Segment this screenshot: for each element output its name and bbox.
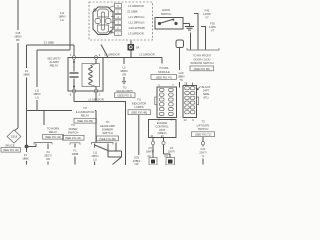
svg-text:L11: L11 xyxy=(60,11,65,15)
label L11 18PK/LG mid xyxy=(33,89,41,100)
svg-text:18BK: 18BK xyxy=(23,73,30,77)
svg-text:(SEE FIG 47): (SEE FIG 47) xyxy=(156,75,172,79)
wire G03 xyxy=(133,115,141,166)
svg-text:HOOD: HOOD xyxy=(162,8,170,12)
svg-text:L11: L11 xyxy=(35,89,40,93)
svg-text:OR: OR xyxy=(46,157,50,161)
label TO HEADLAMPS (SEE FIG 3) xyxy=(115,85,136,97)
wire L11 horizontal xyxy=(37,49,70,51)
svg-text:L11 18PK/LG: L11 18PK/LG xyxy=(129,15,145,19)
svg-text:L3 18RD/OR: L3 18RD/OR xyxy=(128,32,143,36)
svg-text:18PK/: 18PK/ xyxy=(58,15,66,19)
label TO ILLUMINATION RELAY (SEE FIG 89) xyxy=(72,105,97,125)
svg-text:14PT: 14PT xyxy=(203,89,210,93)
svg-text:F35: F35 xyxy=(210,22,215,26)
relay contact xyxy=(70,60,79,90)
svg-text:VT: VT xyxy=(211,29,215,33)
wire F35 xyxy=(201,22,216,50)
svg-text:L11 18PK/LG: L11 18PK/LG xyxy=(129,21,145,25)
svg-text:X4: X4 xyxy=(46,150,50,154)
wire horizontal to dimmer switch xyxy=(27,110,97,112)
connector face xyxy=(93,7,113,35)
svg-text:CONTROL: CONTROL xyxy=(155,124,169,128)
horn bracket xyxy=(34,143,52,145)
svg-text:20: 20 xyxy=(161,134,164,138)
svg-text:G19 20TN/PK: G19 20TN/PK xyxy=(129,26,146,30)
wire F1 xyxy=(70,143,80,165)
svg-text:ENGINE: ENGINE xyxy=(157,121,168,125)
wire relay pin8 down xyxy=(73,93,75,102)
svg-text:18VT/: 18VT/ xyxy=(168,149,175,153)
svg-text:G71: G71 xyxy=(200,147,206,151)
svg-text:HEADLAMP: HEADLAMP xyxy=(100,124,115,128)
label TO HEADLAMP DIMMER SWITCH (SEE FIG 4B) xyxy=(97,119,120,142)
label BLACK 14PT SIDE xyxy=(196,85,210,100)
splice S218 diamond xyxy=(7,130,21,143)
svg-text:SWITCH: SWITCH xyxy=(68,131,79,135)
connector C3 xyxy=(164,154,174,165)
svg-text:L11: L11 xyxy=(93,151,98,155)
svg-text:SECURITY: SECURITY xyxy=(47,57,61,61)
wire L3 to headlamps xyxy=(120,58,128,85)
svg-text:YL: YL xyxy=(201,154,205,158)
svg-text:(SEE FIG 48): (SEE FIG 48) xyxy=(131,111,147,115)
svg-text:L3 18RD/OR: L3 18RD/OR xyxy=(104,53,119,57)
wire Z1 horizontal to relay xyxy=(27,44,75,46)
svg-text:TO: TO xyxy=(71,123,75,127)
wire from ground area xyxy=(190,33,192,50)
wire L11 vertical xyxy=(36,50,38,87)
svg-text:14PK/: 14PK/ xyxy=(209,25,217,29)
svg-text:TO DRL: TO DRL xyxy=(159,66,169,70)
label TO RH FRONT DOOR LOCK/WINDOW SWITCH (SEE FIG 88) xyxy=(190,54,214,71)
svg-text:VT: VT xyxy=(205,16,209,20)
wire relay pin2 down xyxy=(95,93,97,102)
svg-text:(SEE FIG 44): (SEE FIG 44) xyxy=(45,135,61,139)
right connector block pins xyxy=(183,82,199,123)
svg-text:LG: LG xyxy=(93,158,97,162)
svg-text:(SEE FIG 42): (SEE FIG 42) xyxy=(65,136,81,140)
dimmer bracket xyxy=(92,143,114,145)
svg-text:MODULE: MODULE xyxy=(158,70,170,74)
wire L11 from top xyxy=(69,0,71,50)
svg-text:SWITCH: SWITCH xyxy=(102,131,113,135)
wire to ground xyxy=(183,24,190,27)
svg-text:Z1: Z1 xyxy=(24,153,28,157)
svg-text:SWITCH: SWITCH xyxy=(161,12,172,16)
svg-text:L3 18RD/OR: L3 18RD/OR xyxy=(128,4,143,8)
pin box 1 xyxy=(108,4,144,9)
svg-text:TO RH FRONT: TO RH FRONT xyxy=(193,54,212,58)
svg-text:G19: G19 xyxy=(178,71,184,75)
svg-text:LG: LG xyxy=(35,96,39,100)
wire L11 under dimmer xyxy=(91,151,99,166)
hood switch xyxy=(155,8,183,29)
svg-text:L3 18RD/OR: L3 18RD/OR xyxy=(139,53,154,57)
wire horn to splice dot xyxy=(27,144,37,147)
label TO INDICATOR LAMPS (SEE FIG 48) xyxy=(128,98,151,115)
left connector block pins xyxy=(155,83,177,122)
label TO WIPER SWITCH (SEE FIG 42) xyxy=(63,123,85,140)
junction dot xyxy=(25,145,29,149)
pin box 6 xyxy=(108,31,144,36)
wire X4 xyxy=(44,144,52,165)
svg-text:BLACK: BLACK xyxy=(202,85,211,89)
svg-text:F42: F42 xyxy=(205,9,210,13)
svg-text:OR: OR xyxy=(122,73,126,77)
security alarm relay K1 xyxy=(68,53,103,97)
svg-text:(SEE FIG 3): (SEE FIG 3) xyxy=(117,94,132,98)
pin box 3 xyxy=(111,15,144,20)
svg-text:LIFTGATE: LIFTGATE xyxy=(197,123,210,127)
svg-text:18PK/: 18PK/ xyxy=(91,154,99,158)
svg-text:WIPER: WIPER xyxy=(69,127,78,131)
svg-text:L3: L3 xyxy=(123,66,126,70)
svg-text:SWITCH: SWITCH xyxy=(198,127,209,131)
svg-text:Z1 18BK: Z1 18BK xyxy=(44,41,55,45)
svg-text:S218: S218 xyxy=(11,135,18,139)
pin box 4 xyxy=(111,20,144,25)
svg-text:SPLICE: SPLICE xyxy=(5,144,15,148)
wire F42 xyxy=(194,9,211,50)
svg-text:Z1 18BK: Z1 18BK xyxy=(127,10,138,14)
svg-text:18DB: 18DB xyxy=(72,152,79,156)
svg-text:(SEE FIG 4B): (SEE FIG 4B) xyxy=(99,137,116,141)
svg-text:INDICATOR: INDICATOR xyxy=(132,101,147,105)
wire L3 bottom horizontal xyxy=(74,101,126,103)
bracket RH front xyxy=(187,48,219,50)
svg-text:OR: OR xyxy=(134,162,138,165)
wire down to horn label xyxy=(43,111,45,126)
svg-text:18DA/: 18DA/ xyxy=(14,35,22,39)
splice S4 xyxy=(128,41,140,58)
svg-text:SIDE: SIDE xyxy=(203,92,209,96)
svg-text:TO: TO xyxy=(106,120,110,124)
svg-text:(SEE FIG 71): (SEE FIG 71) xyxy=(195,133,211,137)
svg-text:LG: LG xyxy=(60,18,64,22)
connector symbol C210 xyxy=(176,40,184,48)
svg-text:HEADLAMPS: HEADLAMPS xyxy=(116,89,133,93)
svg-text:18GY/: 18GY/ xyxy=(44,154,52,158)
switch wires lower staircase xyxy=(108,143,122,165)
svg-text:TO: TO xyxy=(137,98,141,102)
wire down to dimmer area xyxy=(95,111,97,143)
wire F18 lower vertical xyxy=(17,43,19,128)
svg-text:DOOR LOCK/: DOOR LOCK/ xyxy=(194,57,211,61)
svg-text:13: 13 xyxy=(184,118,187,122)
wire C6 xyxy=(146,145,154,158)
svg-text:TN: TN xyxy=(179,78,183,82)
wire C4 xyxy=(164,145,176,158)
label Z1 18BK bottom xyxy=(22,147,29,165)
svg-text:WINDOW SWITCH: WINDOW SWITCH xyxy=(190,61,213,65)
wire Z1 left vertical xyxy=(26,45,28,68)
ground xyxy=(185,27,194,31)
svg-text:S4: S4 xyxy=(136,46,140,50)
label Z1 18BK mid xyxy=(23,69,30,77)
svg-text:18PK/: 18PK/ xyxy=(33,92,41,96)
svg-text:18WT*: 18WT* xyxy=(146,149,154,153)
ECU pins 40 20 xyxy=(150,134,165,145)
svg-text:F18: F18 xyxy=(16,31,21,35)
svg-text:RELAY: RELAY xyxy=(49,130,58,134)
dashed box instrument cluster connector xyxy=(89,2,153,40)
svg-text:LAMPS: LAMPS xyxy=(134,105,143,109)
svg-text:(SEE FIG 89): (SEE FIG 89) xyxy=(77,119,93,123)
svg-text:18BK/: 18BK/ xyxy=(177,75,185,79)
svg-text:DIMMER: DIMMER xyxy=(102,128,113,132)
wire G71 xyxy=(199,137,206,165)
svg-text:BK: BK xyxy=(16,38,20,42)
label SPLICE (SEE FIG 30) xyxy=(1,144,21,153)
svg-text:18BK: 18BK xyxy=(22,157,29,161)
connector C2 xyxy=(147,154,157,165)
pin box 2 xyxy=(110,9,138,14)
svg-text:TO: TO xyxy=(123,85,127,89)
svg-text:ILLUMINATION: ILLUMINATION xyxy=(76,110,95,114)
label L11 18PK/LG left xyxy=(58,11,66,22)
svg-text:18RD/: 18RD/ xyxy=(120,69,128,73)
svg-text:40: 40 xyxy=(150,134,153,138)
svg-text:UNIT: UNIT xyxy=(159,128,166,132)
svg-text:Z1: Z1 xyxy=(25,69,29,73)
wire relay pin1 drop xyxy=(73,45,75,56)
label SECURITY ALARM RELAY xyxy=(47,57,61,68)
wire to DRL xyxy=(161,58,163,64)
wire F18 top vertical xyxy=(17,0,19,30)
svg-text:TO HORN: TO HORN xyxy=(47,127,59,131)
dimmer switch blade xyxy=(95,144,108,158)
wire L3 from relay pin3 xyxy=(98,57,162,59)
label TO HORN RELAY (SEE FIG 44) xyxy=(43,127,64,140)
relay coil L xyxy=(82,60,100,90)
svg-text:14OR/: 14OR/ xyxy=(203,12,211,16)
svg-text:RELAY: RELAY xyxy=(50,64,59,68)
wire L3 down right xyxy=(125,102,127,166)
label TO DRL MODULE (SEE FIG 47) xyxy=(151,66,177,79)
svg-text:RELAY: RELAY xyxy=(81,114,90,118)
svg-text:T3: T3 xyxy=(201,120,205,124)
svg-text:TO: TO xyxy=(83,106,87,110)
svg-text:L3 18RD/OR: L3 18RD/OR xyxy=(88,97,103,101)
wire G19 xyxy=(177,48,185,88)
pin box 5 xyxy=(110,26,146,31)
svg-text:F1: F1 xyxy=(73,149,77,153)
wire diagonal from connector xyxy=(101,45,108,58)
svg-text:(SEE FIG 30): (SEE FIG 30) xyxy=(3,148,19,152)
svg-text:ALARM: ALARM xyxy=(49,60,59,64)
svg-text:20VT/: 20VT/ xyxy=(199,151,206,155)
svg-text:(P1): (P1) xyxy=(203,96,208,100)
label F18 18DA/BK xyxy=(14,31,22,42)
label TO LIFTGATE SWITCH (SEE FIG 71) xyxy=(192,120,215,137)
engine control unit box xyxy=(149,120,177,138)
svg-text:(SEE FIG 88): (SEE FIG 88) xyxy=(194,67,210,71)
